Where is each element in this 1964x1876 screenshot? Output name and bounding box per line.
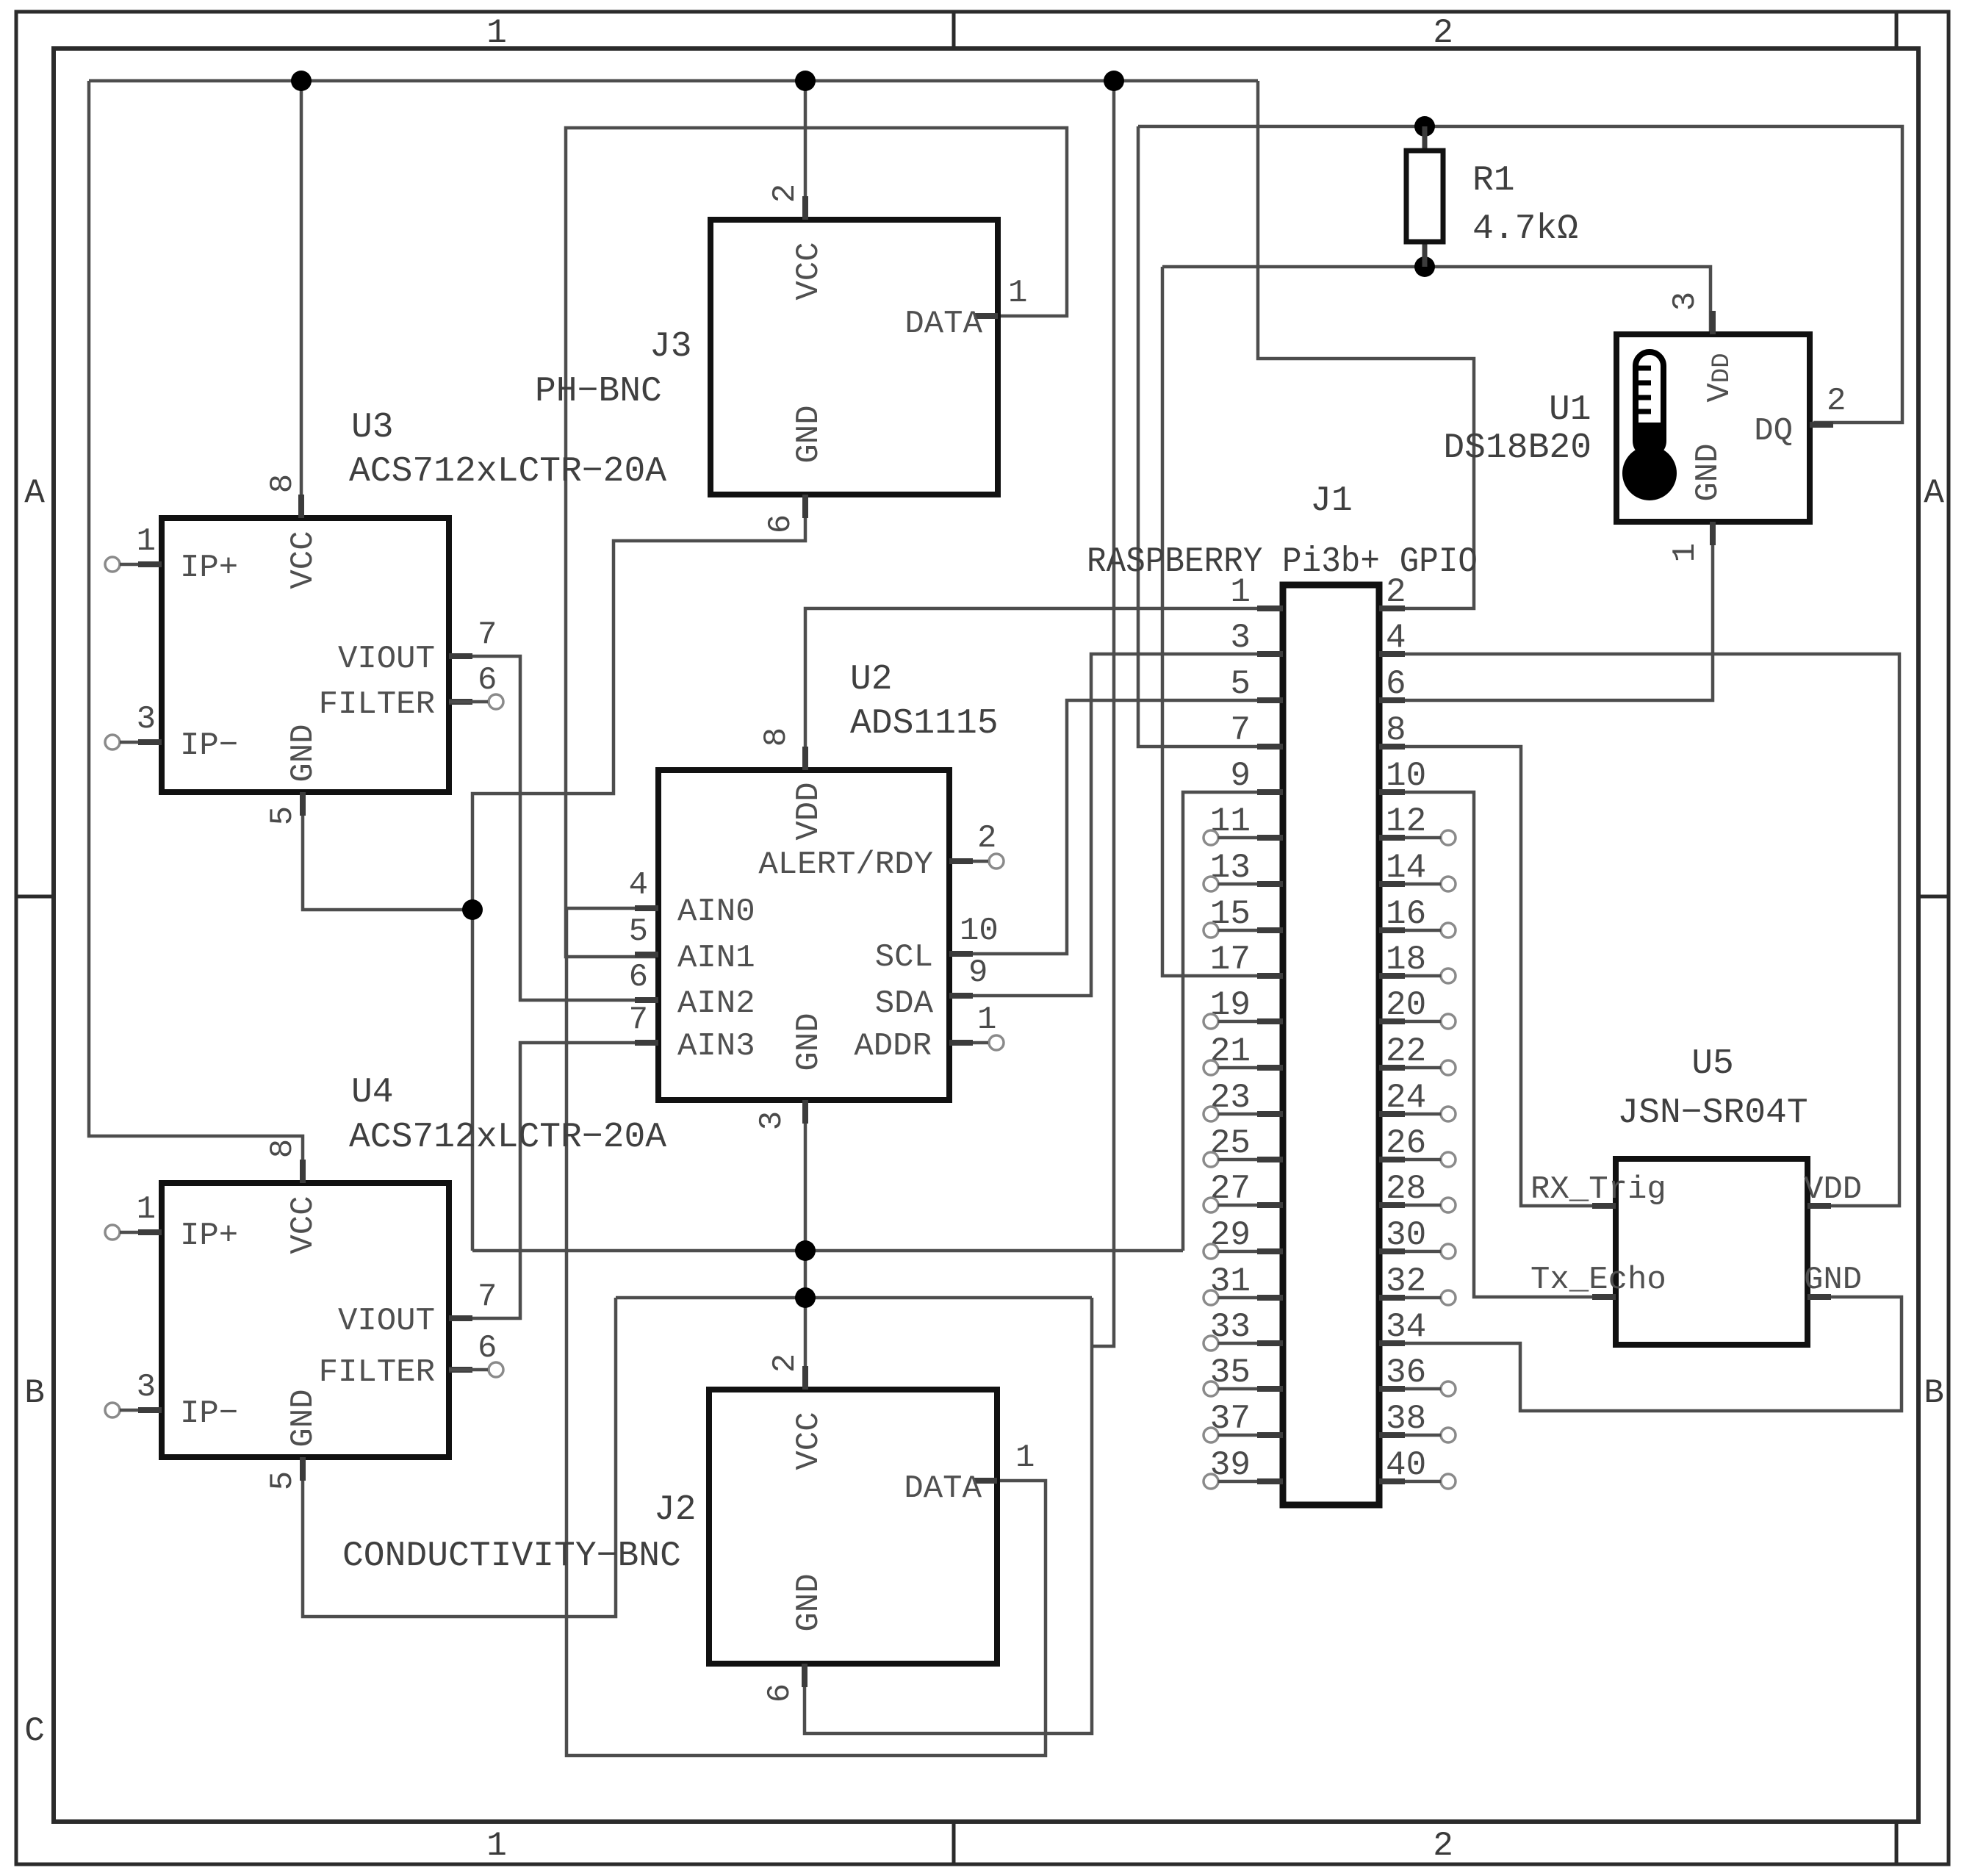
wire J3 GND to GND riser — [472, 495, 805, 1251]
svg-text:IP+: IP+ — [180, 550, 238, 586]
svg-text:ADDR: ADDR — [854, 1028, 932, 1065]
svg-text:AIN2: AIN2 — [677, 985, 755, 1022]
svg-text:38: 38 — [1386, 1400, 1426, 1438]
svg-text:4: 4 — [629, 867, 648, 904]
connector J3 PH-BNC — [535, 184, 1027, 533]
svg-text:GND: GND — [791, 405, 827, 463]
junction node GND U3 — [462, 899, 483, 920]
junction node 5V branch — [1104, 71, 1124, 91]
wire DQ/GPIO4 drop to J1 pin7 — [1138, 126, 1257, 747]
connector J1 RASPBERRY Pi3b+ GPIO — [1087, 481, 1478, 1505]
svg-text:VCC: VCC — [285, 531, 322, 589]
svg-text:5: 5 — [1230, 665, 1251, 703]
svg-text:4.7kΩ: 4.7kΩ — [1472, 209, 1578, 249]
svg-text:U4: U4 — [351, 1073, 394, 1113]
svg-text:FILTER: FILTER — [319, 1354, 435, 1391]
resistor R1 — [1406, 126, 1578, 267]
svg-text:2: 2 — [767, 184, 804, 203]
svg-text:1: 1 — [977, 1002, 996, 1038]
junction node R1 bottom — [1414, 256, 1435, 277]
wire R1 bottom to U1 VDD — [1162, 267, 1711, 334]
svg-text:2: 2 — [1386, 573, 1406, 611]
wire 3V3 rail y172 to DQ — [1138, 126, 1902, 423]
wire SDA U2 to J1 pin3 — [949, 654, 1257, 996]
svg-text:VCC: VCC — [285, 1196, 322, 1254]
svg-text:2: 2 — [767, 1354, 804, 1373]
frame corner tick top-right — [1895, 12, 1899, 48]
svg-text:22: 22 — [1386, 1032, 1426, 1071]
wire U3 GND down-right — [303, 792, 472, 910]
wire U3 VIOUT to U2 AIN2 — [449, 656, 658, 1000]
svg-text:12: 12 — [1386, 802, 1426, 841]
svg-text:5: 5 — [265, 806, 301, 825]
wire J1 pin8 to U5 RX_Trig — [1405, 747, 1616, 1206]
junction node GND rail1 — [795, 1240, 816, 1261]
svg-text:30: 30 — [1386, 1216, 1426, 1254]
svg-text:34: 34 — [1386, 1308, 1426, 1346]
svg-text:U3: U3 — [351, 408, 394, 448]
wire 5V to J1 pin2 — [1258, 81, 1474, 608]
svg-text:PH−BNC: PH−BNC — [535, 372, 662, 412]
svg-text:DS18B20: DS18B20 — [1443, 428, 1591, 468]
svg-text:VDD: VDD — [791, 782, 827, 840]
svg-text:B: B — [1924, 1374, 1944, 1412]
svg-text:VCC: VCC — [791, 242, 827, 300]
svg-text:40: 40 — [1386, 1446, 1426, 1484]
wire GND rail y1766 — [616, 1296, 1092, 1300]
svg-text:AIN0: AIN0 — [677, 894, 755, 930]
wire J1 pin10 to U5 Tx_Echo — [1405, 792, 1616, 1297]
wire U3 VCC drop — [300, 81, 303, 518]
svg-text:3: 3 — [137, 1369, 156, 1406]
svg-text:1: 1 — [1008, 275, 1027, 312]
wire 5V top rail — [89, 79, 1258, 83]
svg-text:5: 5 — [265, 1471, 301, 1490]
svg-text:3: 3 — [1667, 292, 1704, 311]
svg-text:1: 1 — [486, 1827, 507, 1865]
svg-text:6: 6 — [478, 662, 497, 699]
svg-text:32: 32 — [1386, 1262, 1426, 1301]
wire 3V3 U2 VDD to J1 pin1 — [805, 608, 1257, 770]
frame tick left — [16, 895, 54, 899]
svg-text:18: 18 — [1386, 941, 1426, 979]
svg-text:3: 3 — [754, 1111, 791, 1130]
svg-text:B: B — [24, 1374, 45, 1412]
J1 no-connect pins right — [1441, 830, 1456, 845]
svg-text:RX_Trig: RX_Trig — [1530, 1171, 1666, 1208]
svg-text:CONDUCTIVITY−BNC: CONDUCTIVITY−BNC — [342, 1537, 681, 1576]
wire 5V J1 pin4 to U5 VDD — [1405, 654, 1899, 1206]
svg-text:7: 7 — [629, 1002, 648, 1038]
wire J3 DATA to U2 AIN1 (pH) — [566, 128, 1067, 957]
svg-text:1: 1 — [486, 14, 507, 52]
svg-text:SDA: SDA — [875, 985, 934, 1022]
junction node GND rail2 — [795, 1287, 816, 1308]
frame tick bottom — [952, 1822, 956, 1864]
IC U4 ACS712xLCTR-20A — [105, 1073, 666, 1490]
svg-text:GND: GND — [1804, 1262, 1862, 1298]
svg-text:U2: U2 — [850, 660, 893, 700]
svg-text:8: 8 — [265, 474, 301, 493]
svg-text:3: 3 — [1230, 619, 1251, 657]
svg-text:1: 1 — [1667, 543, 1704, 562]
svg-text:IP+: IP+ — [180, 1218, 238, 1254]
svg-text:RASPBERRY Pi3b+ GPIO: RASPBERRY Pi3b+ GPIO — [1087, 542, 1478, 582]
junction node 5V/J3 — [795, 71, 816, 91]
wire J2 GND riser — [805, 1298, 1092, 1733]
connector J2 CONDUCTIVITY-BNC — [342, 1354, 1035, 1703]
svg-text:1: 1 — [137, 523, 156, 560]
wire GND rail y1702 — [472, 1249, 1183, 1253]
svg-text:U1: U1 — [1549, 390, 1591, 430]
svg-text:3: 3 — [137, 701, 156, 738]
svg-text:16: 16 — [1386, 895, 1426, 933]
svg-text:9: 9 — [1230, 757, 1251, 795]
wire J2 DATA to U2 AIN0 — [566, 908, 1046, 1755]
svg-text:2: 2 — [1827, 383, 1846, 420]
svg-text:J3: J3 — [650, 327, 692, 367]
svg-text:R1: R1 — [1472, 161, 1515, 201]
wire U4 VIOUT to U2 AIN3 — [449, 1043, 658, 1318]
wire U5 GND to J1 pin34 — [1405, 1297, 1902, 1411]
svg-text:5: 5 — [629, 913, 648, 950]
IC U2 ADS1115 — [629, 660, 1004, 1130]
svg-text:VCC: VCC — [791, 1412, 827, 1470]
svg-text:6: 6 — [629, 959, 648, 996]
svg-text:A: A — [24, 474, 45, 512]
wire GND riser to J1 pin9 — [1183, 792, 1257, 1251]
svg-text:6: 6 — [763, 514, 799, 533]
svg-text:DATA: DATA — [904, 306, 982, 342]
svg-text:C: C — [24, 1712, 45, 1750]
IC U3 ACS712xLCTR-20A — [105, 408, 666, 825]
J1 no-connect pins left — [1204, 830, 1218, 845]
svg-text:8: 8 — [758, 727, 795, 747]
svg-text:A: A — [1924, 474, 1944, 512]
svg-text:6: 6 — [478, 1330, 497, 1367]
svg-text:IP−: IP− — [180, 1395, 238, 1432]
IC U1 DS18B20 temperature sensor — [1443, 292, 1846, 562]
svg-text:AIN1: AIN1 — [677, 940, 755, 977]
svg-text:ACS712xLCTR−20A: ACS712xLCTR−20A — [349, 452, 666, 492]
svg-text:4: 4 — [1386, 619, 1406, 657]
svg-text:7: 7 — [1230, 711, 1251, 750]
thermometer icon inside U1 — [1622, 352, 1677, 500]
wire U1 GND to J1 pin6 — [1405, 522, 1713, 700]
frame tick right — [1918, 895, 1949, 899]
svg-text:DATA: DATA — [904, 1470, 982, 1507]
svg-text:10: 10 — [960, 913, 999, 949]
wire J3 VCC drop — [804, 81, 807, 220]
svg-text:FILTER: FILTER — [319, 686, 435, 723]
junction node 5V/U3 — [291, 71, 312, 91]
svg-text:8: 8 — [1386, 711, 1406, 750]
svg-text:GND: GND — [791, 1013, 827, 1071]
svg-text:1: 1 — [1015, 1440, 1035, 1476]
svg-text:1: 1 — [137, 1191, 156, 1228]
wire GND to U4 GND — [303, 1298, 616, 1617]
svg-text:6: 6 — [1386, 665, 1406, 703]
svg-text:6: 6 — [762, 1683, 799, 1703]
svg-text:AIN3: AIN3 — [677, 1028, 755, 1065]
wire 5V left drop to U4 VCC — [89, 81, 303, 1183]
wire SCL U2 to J1 pin5 — [949, 700, 1257, 954]
svg-text:SCL: SCL — [875, 939, 933, 976]
svg-text:14: 14 — [1386, 849, 1426, 887]
svg-text:DQ: DQ — [1754, 413, 1793, 450]
svg-text:J1: J1 — [1310, 481, 1353, 521]
svg-text:2: 2 — [977, 820, 996, 857]
svg-text:26: 26 — [1386, 1124, 1426, 1162]
svg-text:ADS1115: ADS1115 — [850, 704, 999, 744]
svg-text:2: 2 — [1433, 14, 1453, 52]
svg-text:36: 36 — [1386, 1354, 1426, 1392]
svg-text:28: 28 — [1386, 1170, 1426, 1208]
svg-text:U5: U5 — [1691, 1044, 1734, 1084]
svg-text:ACS712xLCTR−20A: ACS712xLCTR−20A — [349, 1118, 666, 1157]
wire 3V3 drop to J1 pin17 — [1162, 267, 1257, 976]
svg-text:7: 7 — [478, 617, 497, 653]
svg-text:GND: GND — [285, 724, 322, 782]
svg-text:VIOUT: VIOUT — [338, 1303, 435, 1340]
svg-text:VIOUT: VIOUT — [338, 641, 435, 678]
junction node R1 top — [1414, 116, 1435, 137]
svg-text:24: 24 — [1386, 1079, 1426, 1117]
svg-text:GND: GND — [285, 1389, 322, 1447]
svg-text:8: 8 — [265, 1139, 301, 1158]
wire x1516 drop with jog — [1092, 81, 1114, 1346]
svg-text:GND: GND — [1690, 443, 1727, 501]
svg-text:JSN−SR04T: JSN−SR04T — [1617, 1093, 1807, 1133]
wire U2 GND drop to J2 VCC — [804, 1100, 807, 1390]
svg-text:ALERT/RDY: ALERT/RDY — [758, 847, 933, 883]
svg-text:17: 17 — [1210, 941, 1251, 979]
svg-text:7: 7 — [478, 1279, 497, 1315]
svg-text:2: 2 — [1433, 1827, 1453, 1865]
svg-text:10: 10 — [1386, 757, 1426, 795]
J1 pin stubs — [1257, 608, 1405, 1481]
svg-text:J2: J2 — [654, 1490, 697, 1530]
svg-text:1: 1 — [1230, 573, 1251, 611]
svg-text:IP−: IP− — [180, 727, 238, 764]
svg-text:GND: GND — [791, 1573, 827, 1631]
svg-text:VDD: VDD — [1804, 1171, 1862, 1208]
frame tick top — [952, 12, 956, 48]
frame corner tick bottom-right — [1895, 1822, 1899, 1864]
svg-text:Tx_Echo: Tx_Echo — [1530, 1262, 1666, 1298]
IC U5 JSN-SR04T ultrasonic module — [1530, 1044, 1862, 1345]
svg-text:9: 9 — [968, 955, 988, 991]
svg-text:20: 20 — [1386, 986, 1426, 1024]
